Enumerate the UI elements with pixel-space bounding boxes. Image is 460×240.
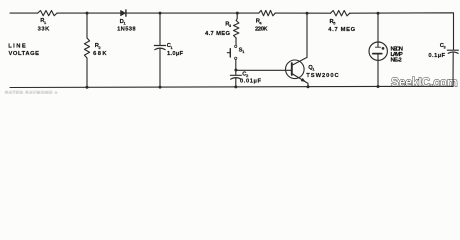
switch S1 pushbutton	[227, 45, 237, 59]
svg-text:1: 1	[44, 20, 47, 25]
wire top rail R5 to right corner	[350, 13, 454, 50]
svg-text:4.7 MEG: 4.7 MEG	[328, 27, 355, 33]
svg-text:33K: 33K	[38, 27, 51, 33]
capacitor C2	[230, 75, 241, 79]
diode D1	[121, 10, 126, 16]
node base junction	[234, 69, 237, 72]
svg-text:3: 3	[229, 23, 232, 28]
wire C2 to bottom rail	[235, 78, 237, 87]
node top rail / C1	[159, 12, 162, 15]
wire bottom rail	[10, 86, 453, 87]
wire neon branch bottom	[377, 60, 379, 86]
node bottom rail / Q1 emitter	[307, 85, 310, 88]
svg-text:2: 2	[99, 45, 102, 50]
svg-text:1: 1	[171, 45, 174, 50]
svg-text:1: 1	[124, 21, 127, 26]
wire C1 branch vertical top	[159, 13, 161, 45]
svg-text:LINE: LINE	[8, 43, 26, 49]
wire C1 branch vertical bottom	[159, 48, 161, 87]
svg-text:4.7 MEG: 4.7 MEG	[205, 31, 230, 37]
wire Q1 emitter to bottom rail	[307, 83, 309, 86]
capacitor C1	[154, 46, 165, 50]
svg-text:5: 5	[333, 21, 336, 26]
label S1	[239, 48, 246, 55]
label C2 0.01uF	[240, 71, 261, 84]
label LINE VOLTAGE	[8, 43, 39, 57]
wire Q1 collector to top rail	[306, 13, 308, 57]
svg-text:SeekIC.com: SeekIC.com	[391, 76, 458, 90]
wire R3 branch top	[236, 13, 237, 20]
svg-text:3: 3	[444, 45, 447, 50]
transistor Q1	[286, 57, 309, 83]
svg-text:1.0µF: 1.0µF	[167, 51, 183, 57]
node bottom rail / C2	[234, 85, 237, 88]
svg-text:4: 4	[259, 20, 262, 25]
wire base node to Q1 base	[236, 69, 292, 71]
wire R2 branch vertical bottom	[86, 58, 88, 87]
svg-text:0.01µF: 0.01µF	[240, 79, 261, 85]
node top rail / R3	[236, 12, 239, 15]
wire R2 branch vertical top	[86, 13, 88, 38]
label D1 1N538	[117, 19, 136, 33]
node top rail / R2	[86, 12, 89, 15]
svg-text:1: 1	[312, 67, 315, 72]
svg-text:2: 2	[246, 73, 249, 78]
svg-text:0.1µF: 0.1µF	[428, 53, 445, 59]
label R3 4.7 MEG	[205, 21, 232, 36]
resistor R2	[84, 38, 89, 58]
resistor R4	[259, 10, 275, 15]
svg-text:68K: 68K	[93, 51, 107, 57]
ghost caption text (bottom-left, faint)	[5, 90, 58, 95]
label R1 33K	[38, 18, 51, 33]
wire S1 to base node	[235, 60, 237, 71]
label C1 1.0uF	[167, 43, 184, 57]
svg-text:VOLTAGE: VOLTAGE	[9, 51, 40, 57]
watermark SeekIC.com	[391, 76, 458, 90]
wire top rail D1 to R4	[126, 12, 259, 14]
label NEON LAMP NE-2	[391, 46, 403, 63]
wire R3 to switch S1	[235, 38, 237, 45]
neon lamp NE-2	[369, 42, 387, 60]
wire top rail R1 to D1	[57, 12, 121, 14]
wire base node to C2	[235, 70, 237, 75]
label R4 220K	[255, 19, 268, 33]
wire top rail R4 to R5	[275, 12, 330, 14]
node top rail / neon	[377, 12, 380, 15]
svg-text:1N538: 1N538	[117, 27, 136, 33]
node bottom rail / C1	[159, 86, 162, 89]
svg-text:220K: 220K	[255, 27, 268, 33]
label R5 4.7 MEG	[328, 19, 355, 33]
node bottom rail / neon	[377, 85, 380, 88]
resistor R3	[234, 21, 239, 39]
node bottom rail / R2	[86, 86, 89, 89]
svg-text:NE-2: NE-2	[391, 58, 402, 64]
label Q1 TSW200C	[306, 65, 339, 79]
capacitor C3	[447, 50, 458, 86]
svg-text:TSW200C: TSW200C	[306, 73, 339, 79]
svg-text:RATED RAYMOND s: RATED RAYMOND s	[5, 90, 58, 94]
label R2 68K	[93, 43, 107, 57]
wire neon branch top	[377, 13, 379, 42]
node top rail / Q1 collector	[306, 12, 309, 15]
svg-text:1: 1	[242, 49, 245, 54]
wire top rail left segment	[10, 12, 38, 14]
label C3 0.1uF	[428, 43, 446, 59]
resistor R1	[38, 11, 57, 16]
resistor R5	[331, 11, 350, 16]
